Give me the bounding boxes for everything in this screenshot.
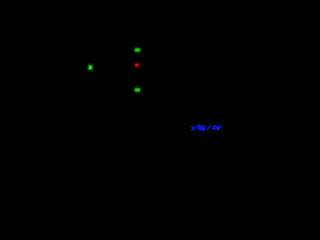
glyph X bbox=[192, 126, 195, 130]
watermark signature (blue) bbox=[192, 125, 222, 131]
glyph Z bbox=[213, 126, 216, 129]
LED D4 (green pair, bottom) bbox=[135, 88, 141, 92]
LED D1 (green indicator, left) bbox=[88, 65, 93, 70]
glyph W bbox=[217, 126, 221, 130]
LED D2 (green pair, top) bbox=[135, 48, 141, 52]
cursive word with overbar bbox=[197, 125, 199, 130]
LED D3 (red, middle) bbox=[135, 63, 140, 67]
slash bbox=[208, 126, 211, 130]
trailing dot bbox=[220, 126, 222, 128]
